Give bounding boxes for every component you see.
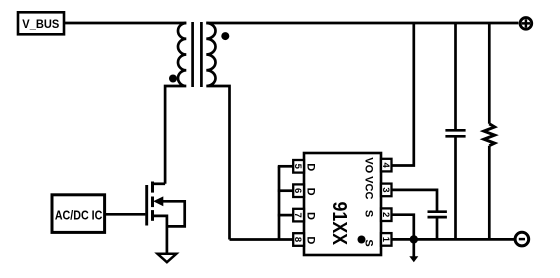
svg-text:5: 5 bbox=[292, 164, 303, 170]
svg-text:S: S bbox=[362, 239, 374, 246]
svg-text:AC/DC IC: AC/DC IC bbox=[55, 208, 103, 222]
svg-text:6: 6 bbox=[292, 188, 303, 193]
svg-text:D: D bbox=[305, 163, 317, 171]
svg-text:VO: VO bbox=[362, 157, 374, 173]
svg-text:D: D bbox=[305, 188, 317, 196]
svg-text:91XX: 91XX bbox=[328, 202, 350, 246]
svg-text:D: D bbox=[305, 212, 317, 220]
svg-text:3: 3 bbox=[380, 187, 391, 192]
svg-text:4: 4 bbox=[380, 162, 391, 168]
svg-text:8: 8 bbox=[292, 237, 303, 242]
svg-text:2: 2 bbox=[380, 212, 391, 217]
svg-text:1: 1 bbox=[380, 237, 391, 243]
svg-text:D: D bbox=[305, 236, 317, 244]
svg-text:VCC: VCC bbox=[362, 176, 374, 199]
svg-text:S: S bbox=[362, 210, 374, 217]
svg-text:7: 7 bbox=[292, 212, 303, 217]
svg-text:V_BUS: V_BUS bbox=[22, 17, 59, 31]
